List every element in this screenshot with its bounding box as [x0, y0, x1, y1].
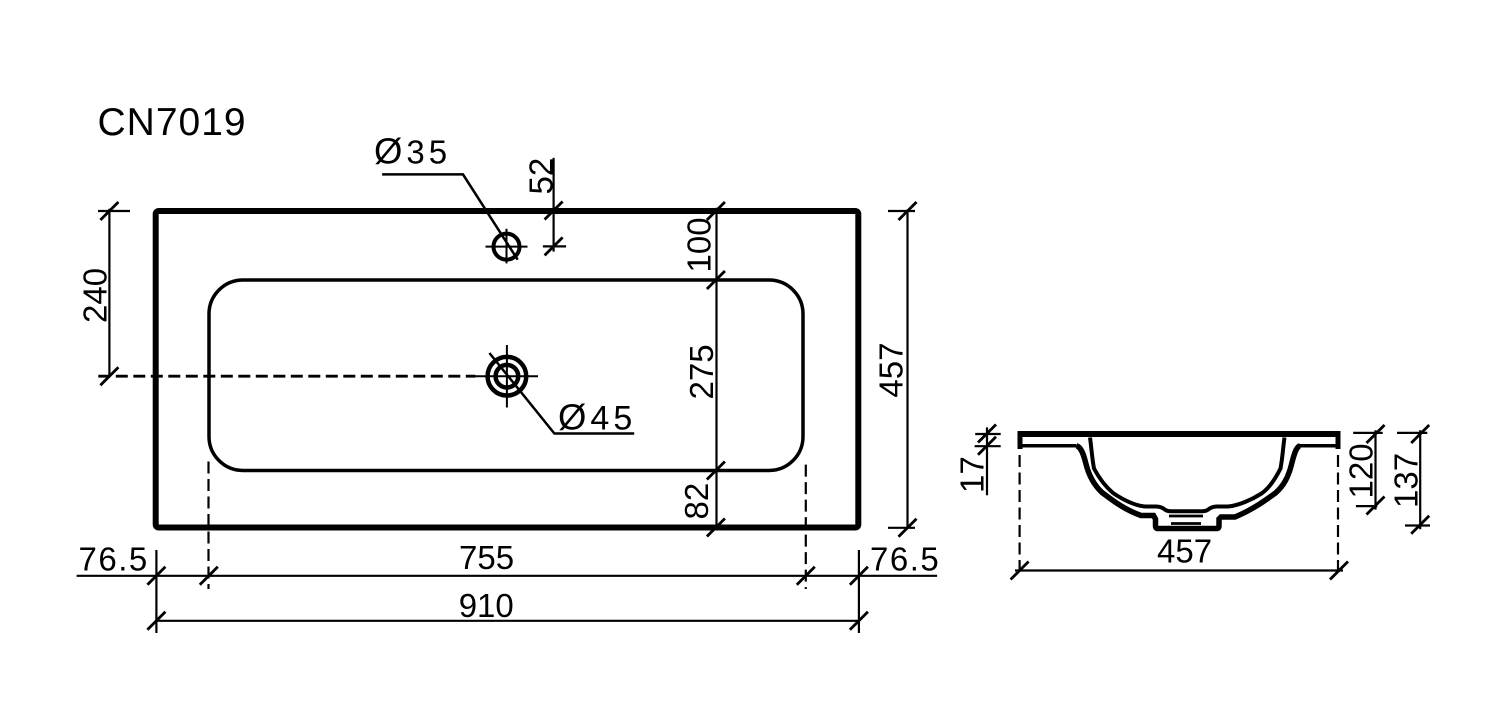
side 457 dim line — [1015, 569, 1343, 571]
dim 240 tick top — [100, 202, 118, 220]
bottom dim line 1 — [77, 575, 938, 577]
tick b2 a — [147, 612, 165, 630]
faucet hole crosshair — [486, 229, 528, 264]
leader O45 — [489, 353, 634, 434]
svg-text:457: 457 — [1157, 533, 1212, 570]
drain recess line B — [1169, 515, 1203, 518]
basin bowl inner outline — [209, 280, 803, 471]
svg-text:Ø35: Ø35 — [374, 131, 451, 172]
tick at bowl top — [707, 271, 725, 289]
drain hole inner circle — [496, 365, 519, 388]
svg-text:240: 240 — [77, 268, 114, 323]
svg-text:137: 137 — [1388, 453, 1425, 508]
rim underside right — [1300, 444, 1338, 448]
outer rect (basin top view) — [156, 211, 859, 528]
bowl outer profile — [1077, 446, 1301, 529]
dim 120 line — [1374, 430, 1376, 509]
dim 240 line — [108, 209, 110, 377]
dim 137 line — [1419, 430, 1421, 529]
side top bar — [1018, 431, 1341, 437]
dashed centerline — [98, 375, 475, 378]
dim 240 tick bottom — [100, 367, 118, 385]
dim 52 tick top — [545, 202, 563, 220]
drain crosshair — [476, 345, 538, 408]
tick 457 bottom — [899, 519, 917, 537]
ext vertical left bottom — [155, 550, 157, 633]
svg-text:275: 275 — [683, 344, 720, 399]
tick b1 d — [850, 567, 868, 585]
bottom dim line 2 (910) — [156, 620, 859, 622]
tick 457 top — [899, 202, 917, 220]
side dashed ext left — [1018, 455, 1020, 576]
svg-text:120: 120 — [1343, 443, 1380, 498]
dim 17 ext bottom — [975, 445, 1001, 447]
side right end cap — [1336, 431, 1341, 449]
tick side457 right — [1330, 562, 1348, 580]
dim 17 line — [986, 427, 988, 495]
dim 137 ext top — [1397, 432, 1427, 434]
tick at bowl bottom — [707, 462, 725, 480]
ext vertical right bottom — [858, 550, 860, 633]
tick b2 b — [850, 612, 868, 630]
tick b1 b — [200, 567, 218, 585]
dim 52 line — [552, 158, 554, 252]
dim 120 ext bottom — [1356, 505, 1377, 507]
tick 120 top — [1367, 425, 1385, 443]
ext dashed right (755) — [805, 465, 807, 589]
dim 52 tick bottom — [545, 237, 563, 255]
tick 137 bottom — [1411, 516, 1429, 534]
svg-text:76.5: 76.5 — [79, 541, 149, 578]
rim underside left — [1020, 444, 1077, 448]
dim 240 ext — [98, 210, 130, 212]
drain recess line C — [1171, 522, 1201, 525]
svg-text:Ø45: Ø45 — [558, 397, 636, 438]
tick at top edge — [707, 202, 725, 220]
svg-text:755: 755 — [459, 539, 514, 576]
svg-text:76.5: 76.5 — [870, 541, 940, 578]
ext dashed left (755) — [207, 462, 209, 590]
ext bottom right — [888, 527, 915, 529]
bowl inner profile — [1090, 438, 1285, 512]
ext top right — [888, 210, 915, 212]
dim 457 main line — [906, 210, 908, 529]
inner dims line (100/275/82) — [715, 208, 717, 528]
svg-text:52: 52 — [523, 158, 560, 195]
drain hole outer circle — [488, 357, 527, 396]
tick 137 top — [1411, 425, 1429, 443]
svg-text:100: 100 — [681, 217, 718, 272]
tick 120 bottom — [1367, 497, 1385, 515]
svg-text:457: 457 — [873, 343, 910, 398]
tick at bottom edge — [707, 519, 725, 537]
tick 17 top — [978, 425, 996, 443]
dim 120 ext top — [1353, 432, 1383, 434]
side left end cap — [1018, 431, 1023, 449]
dim 137 ext bottom — [1405, 524, 1430, 526]
tick 17 bottom — [978, 437, 996, 455]
svg-text:CN7019: CN7019 — [98, 101, 247, 144]
svg-text:910: 910 — [459, 587, 514, 624]
tick b1 a — [147, 567, 165, 585]
svg-text:82: 82 — [678, 483, 715, 520]
faucet hole circle — [494, 234, 520, 260]
dim 17 ext top — [975, 433, 1001, 435]
svg-text:17: 17 — [954, 456, 991, 493]
leader O35 — [382, 174, 518, 259]
tick b1 c — [797, 567, 815, 585]
tick side457 left — [1011, 562, 1029, 580]
dim 52 ext — [543, 245, 566, 247]
side dashed ext right — [1337, 455, 1339, 576]
